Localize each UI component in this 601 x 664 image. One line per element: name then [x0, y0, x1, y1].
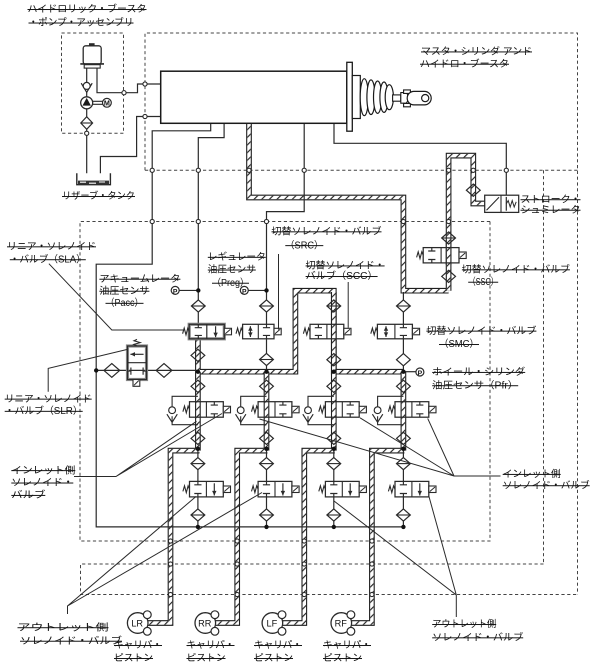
svg-text:リザーブ・タンク: リザーブ・タンク — [62, 189, 135, 202]
svg-text:リニア・ソレノイド: リニア・ソレノイド — [7, 242, 96, 253]
check diamond stroke-simulator branch — [466, 184, 480, 196]
stroke simulator — [485, 195, 519, 212]
svg-text:ソレノイド・: ソレノイド・ — [11, 478, 73, 489]
wire pump outlet to MC — [97, 68, 161, 93]
switching solenoid valve SMC — [377, 324, 412, 339]
svg-text:ピストン: ピストン — [254, 652, 293, 664]
svg-text:・バルブ（SLR）: ・バルブ（SLR） — [5, 404, 83, 417]
wire MC return to tank — [100, 117, 160, 177]
svg-text:油圧センサ: 油圧センサ — [208, 263, 256, 276]
filter above SMC — [397, 300, 411, 312]
wire MC port2 to SLA — [198, 123, 224, 324]
wire MC port4 to SRC — [267, 123, 305, 324]
wire inlet/outlet valve branch — [266, 451, 268, 527]
filter (pump suction) — [81, 117, 93, 130]
wire MC port1 return line — [96, 123, 404, 527]
wire SCC/SMC columns — [334, 292, 404, 451]
svg-text:バルブ: バルブ — [11, 488, 45, 501]
svg-text:P: P — [173, 288, 178, 295]
svg-text:LR: LR — [131, 618, 143, 628]
check valve bypass (inlet valve) — [308, 396, 334, 424]
svg-text:ハイドロリック・ブースタ: ハイドロリック・ブースタ — [28, 2, 147, 15]
svg-text:キャリパ・: キャリパ・ — [254, 639, 302, 651]
caliper piston LF — [262, 613, 283, 634]
svg-text:（SMC）: （SMC） — [439, 338, 479, 350]
inlet solenoid valve — [325, 402, 359, 418]
switching solenoid valve SSC — [423, 248, 459, 263]
svg-text:レギュレータ: レギュレータ — [208, 251, 266, 263]
filter above outlet valve — [260, 458, 274, 470]
svg-text:ピストン: ピストン — [114, 652, 153, 664]
pump P1 — [81, 97, 93, 109]
filter left of SLR — [104, 364, 120, 378]
check diamond below inlet valve — [191, 432, 205, 444]
svg-text:（SSC）: （SSC） — [468, 276, 498, 288]
switching solenoid valve SRC — [243, 324, 274, 339]
filter below outlet valve — [191, 509, 205, 521]
caliper piston RF — [331, 613, 352, 634]
wire accumulator rail through SLR — [96, 369, 198, 371]
check diamond above inlet valve — [397, 380, 411, 392]
svg-text:RR: RR — [198, 618, 212, 628]
wire inlet valve columns — [198, 370, 334, 451]
wire SMC branch — [402, 292, 404, 371]
wire SSC column — [446, 240, 452, 291]
svg-text:リニア・ソレノイド: リニア・ソレノイド — [5, 394, 92, 405]
wire SRC output — [266, 339, 268, 370]
svg-text:インレット側: インレット側 — [11, 463, 75, 476]
filter below outlet valve — [397, 509, 411, 521]
filter below SRC — [260, 353, 274, 365]
svg-text:切替ソレノイド・バルブ: 切替ソレノイド・バルブ — [272, 225, 382, 238]
outlet solenoid valve — [258, 481, 292, 497]
wire caliper line RF — [350, 451, 405, 623]
svg-text:ソレノイド・バルブ: ソレノイド・バルブ — [432, 631, 523, 644]
wire Pfr sensor stub — [403, 371, 416, 373]
svg-text:インレット側: インレット側 — [503, 467, 561, 480]
outlet solenoid valve — [395, 481, 429, 497]
check valve (pump outlet) — [81, 83, 92, 92]
svg-text:キャリパ・: キャリパ・ — [187, 639, 235, 651]
filter above SCC — [327, 300, 341, 312]
check diamond below SLA — [191, 349, 205, 361]
caliper piston LR — [127, 613, 148, 634]
wire accumulator to check valve and pump — [86, 68, 88, 176]
reserve tank — [77, 173, 111, 185]
svg-text:（Pacc）: （Pacc） — [106, 297, 144, 309]
svg-text:キャリパ・: キャリパ・ — [114, 639, 162, 651]
motor M — [103, 98, 112, 107]
svg-text:P: P — [242, 288, 247, 295]
svg-text:（Preg）: （Preg） — [212, 277, 249, 289]
filter above SLA — [191, 300, 205, 312]
svg-text:・バルブ（SLA）: ・バルブ（SLA） — [10, 252, 86, 265]
check diamond below inlet valve — [397, 432, 411, 444]
junction nodes on dashed boundaries — [122, 91, 126, 95]
svg-text:ハイドロ・ブースタ: ハイドロ・ブースタ — [420, 57, 509, 70]
check diamond above inlet valve — [191, 380, 205, 392]
filter right of SLR — [156, 364, 172, 378]
wire MC port5 to stroke simulator — [334, 123, 506, 195]
filter above outlet valve — [327, 458, 341, 470]
wire caliper line RR — [214, 451, 268, 623]
svg-text:切替ソレノイド・: 切替ソレノイド・ — [306, 259, 385, 272]
pressure sensor Preg — [248, 289, 266, 291]
outlet solenoid valve — [325, 481, 359, 497]
filter above outlet valve — [191, 458, 205, 470]
check diamond below SMC — [397, 354, 411, 366]
svg-text:RF: RF — [335, 618, 348, 628]
check diamond above inlet valve — [260, 380, 274, 392]
svg-text:キャリパ・: キャリパ・ — [323, 639, 371, 651]
filter above outlet valve — [397, 458, 411, 470]
filter above SRC — [260, 300, 274, 312]
pressure sensor Pacc — [179, 289, 198, 291]
svg-text:ストローク・: ストローク・ — [521, 193, 581, 205]
wire SLA output and lower supply rail — [198, 291, 404, 372]
wire inlet/outlet valve branch — [197, 451, 199, 527]
push rod and clevis — [393, 95, 401, 101]
pump assembly dashed box — [62, 33, 124, 133]
svg-text:LF: LF — [267, 618, 278, 628]
svg-text:・ポンプ・アッセンブリ: ・ポンプ・アッセンブリ — [29, 16, 134, 29]
accumulator — [83, 46, 101, 64]
check diamond below SSC — [442, 270, 456, 282]
svg-text:P: P — [418, 370, 423, 377]
main unit dashed boundary — [145, 33, 578, 595]
svg-text:切替ソレノイド・バルブ: 切替ソレノイド・バルブ — [462, 263, 570, 276]
check valve bypass (inlet valve) — [378, 396, 404, 424]
wire main high-pressure line MC to SSC branch — [249, 123, 449, 290]
svg-text:マスタ・シリンダ アンド: マスタ・シリンダ アンド — [421, 45, 532, 58]
wire inlet/outlet valve branch — [333, 451, 335, 527]
check valve bypass (inlet valve) — [241, 396, 267, 424]
svg-text:アウトレット側: アウトレット側 — [432, 617, 496, 630]
svg-text:切替ソレノイド・バルブ: 切替ソレノイド・バルブ — [426, 324, 536, 337]
pressure sensor Pfr — [416, 368, 424, 376]
svg-text:バルブ（SCC）: バルブ（SCC） — [306, 269, 378, 282]
caliper piston RR — [195, 613, 216, 634]
svg-text:ホイール・シリンダ: ホイール・シリンダ — [432, 365, 525, 378]
svg-text:アキュームレータ: アキュームレータ — [99, 273, 180, 285]
linear solenoid valve SLA — [189, 324, 224, 339]
svg-text:アウトレット側: アウトレット側 — [18, 620, 109, 633]
check diamond below SCC — [327, 354, 341, 366]
svg-text:（SRC）: （SRC） — [285, 239, 323, 251]
filter above SSC — [442, 232, 456, 244]
svg-text:油圧センサ: 油圧センサ — [99, 284, 149, 297]
check diamond below inlet valve — [260, 432, 274, 444]
junction dots — [94, 368, 98, 372]
svg-text:ソレノイド・バルブ: ソレノイド・バルブ — [20, 634, 122, 647]
inlet solenoid valve — [395, 402, 429, 418]
filter below outlet valve — [260, 509, 274, 521]
svg-text:油圧センサ（Pfr）: 油圧センサ（Pfr） — [432, 378, 518, 391]
outlet solenoid valve — [190, 481, 224, 497]
svg-text:M: M — [104, 99, 110, 108]
inlet solenoid valve — [258, 402, 292, 418]
booster bellows — [360, 79, 368, 116]
filter below outlet valve — [327, 509, 341, 521]
wire SSC riser to stroke simulator — [449, 156, 485, 265]
master cylinder body — [161, 71, 347, 123]
check valve bypass (inlet valve) — [172, 396, 198, 424]
svg-text:ピストン: ピストン — [323, 652, 362, 664]
wire caliper line LR — [146, 451, 200, 623]
label leader lines — [49, 264, 183, 330]
svg-text:シュミレータ: シュミレータ — [521, 204, 581, 216]
svg-text:ピストン: ピストン — [187, 652, 226, 664]
check diamond above inlet valve — [327, 380, 341, 392]
check diamond below inlet valve — [327, 432, 341, 444]
MC mounting flange — [347, 62, 353, 131]
inlet solenoid valve — [190, 402, 224, 418]
svg-text:ソレノイド・バルブ: ソレノイド・バルブ — [503, 478, 590, 491]
linear solenoid valve SLR — [128, 346, 147, 380]
wire inlet/outlet valve branch — [402, 451, 404, 527]
switching solenoid valve SCC — [310, 324, 344, 339]
wire caliper line LF — [281, 451, 335, 623]
